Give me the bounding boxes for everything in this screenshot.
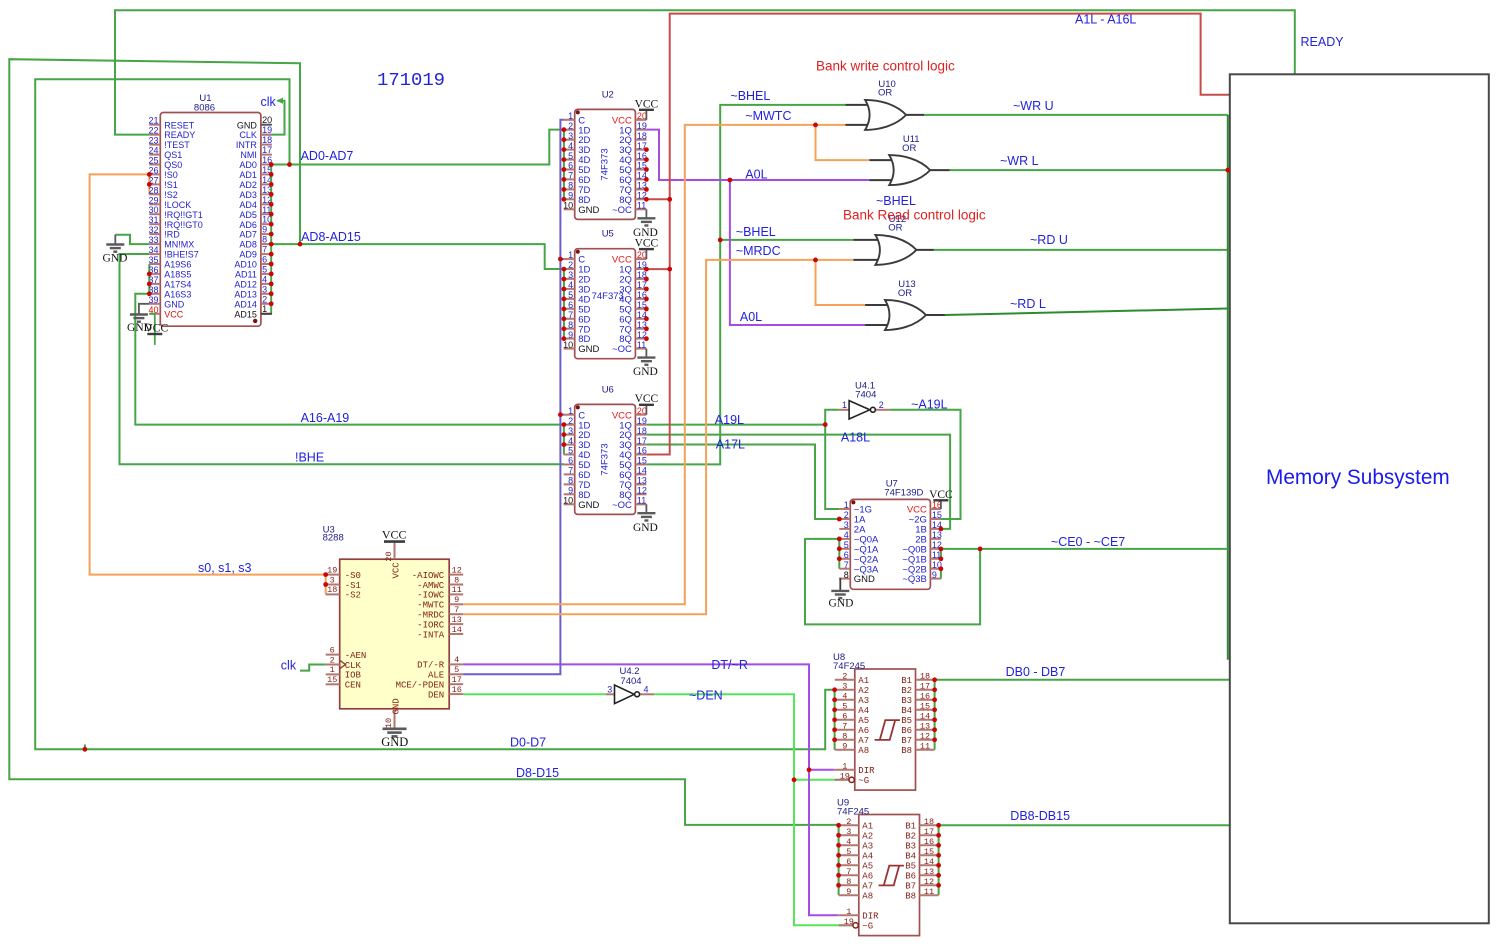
svg-text:~A19L: ~A19L: [911, 397, 948, 411]
svg-text:4: 4: [844, 530, 849, 540]
wire D0-D7 stub above junction: [84, 745, 86, 750]
svg-text:13: 13: [452, 615, 462, 625]
svg-text:5: 5: [262, 264, 267, 274]
wire ~RD U: [934, 249, 1228, 251]
wire A19L net: [646, 424, 825, 426]
svg-text:7: 7: [568, 171, 573, 181]
svg-text:B5: B5: [905, 862, 916, 872]
svg-text:A8: A8: [862, 892, 873, 902]
svg-text:s0, s1, s3: s0, s1, s3: [198, 561, 252, 575]
svg-text:B2: B2: [901, 686, 912, 696]
svg-text:9: 9: [932, 570, 937, 580]
svg-text:A2: A2: [858, 686, 869, 696]
transceiver U8 74F245: [835, 669, 935, 790]
svg-text:19: 19: [327, 565, 337, 575]
or-gate U11: [889, 155, 930, 185]
U7 ground: [839, 579, 840, 591]
svg-text:!S2: !S2: [164, 190, 178, 200]
svg-text:11: 11: [924, 887, 934, 897]
svg-text:A16-A19: A16-A19: [301, 411, 350, 425]
svg-text:17: 17: [924, 827, 934, 837]
svg-text:11: 11: [920, 741, 930, 751]
svg-text:29: 29: [148, 195, 158, 205]
svg-text:Bank Read control logic: Bank Read control logic: [843, 208, 986, 223]
svg-text:2: 2: [330, 655, 335, 665]
svg-text:2: 2: [568, 260, 573, 270]
svg-text:GND: GND: [578, 344, 599, 355]
svg-text:A1: A1: [858, 676, 869, 686]
wire A1L-A16L net: [646, 198, 669, 200]
svg-text:DIR: DIR: [858, 766, 875, 776]
svg-text:10: 10: [563, 201, 573, 211]
svg-text:6: 6: [568, 300, 573, 310]
svg-text:13: 13: [924, 867, 934, 877]
svg-text:AD0-AD7: AD0-AD7: [301, 149, 354, 163]
svg-text:3: 3: [607, 685, 612, 695]
svg-text:~RD U: ~RD U: [1030, 233, 1068, 247]
svg-text:5: 5: [842, 701, 847, 711]
svg-text:2: 2: [568, 416, 573, 426]
svg-text:9: 9: [842, 741, 847, 751]
svg-text:24: 24: [148, 146, 158, 156]
svg-text:GND: GND: [237, 120, 258, 130]
svg-text:15: 15: [920, 701, 930, 711]
svg-text:4: 4: [568, 436, 573, 446]
svg-text:17: 17: [452, 675, 462, 685]
inverter U4.1 7404: [839, 400, 890, 419]
svg-text:A3: A3: [862, 842, 873, 852]
svg-text:INTR: INTR: [236, 140, 257, 150]
svg-text:6: 6: [568, 161, 573, 171]
svg-text:!RQ!!GT0: !RQ!!GT0: [164, 220, 203, 230]
svg-text:18: 18: [637, 131, 647, 141]
svg-text:B7: B7: [905, 882, 916, 892]
wire U3 S bracket: [325, 575, 327, 595]
wire A0L net: [646, 130, 869, 180]
svg-text:A4: A4: [862, 852, 873, 862]
svg-text:!RD: !RD: [164, 230, 180, 240]
svg-text:7: 7: [454, 605, 459, 615]
svg-text:AD0: AD0: [239, 160, 257, 170]
svg-text:4: 4: [842, 691, 847, 701]
svg-text:B3: B3: [905, 842, 916, 852]
svg-text:5: 5: [846, 847, 851, 857]
svg-text:U5: U5: [602, 229, 614, 240]
svg-text:3: 3: [568, 131, 573, 141]
svg-text:MN!MX: MN!MX: [164, 240, 194, 250]
svg-text:~RD L: ~RD L: [1010, 297, 1046, 311]
svg-text:4: 4: [262, 274, 267, 284]
svg-text:13: 13: [932, 530, 942, 540]
svg-text:A5: A5: [862, 862, 873, 872]
svg-text:!TEST: !TEST: [164, 140, 190, 150]
svg-text:20: 20: [384, 551, 394, 561]
svg-text:GND: GND: [381, 735, 408, 749]
svg-text:8: 8: [842, 731, 847, 741]
decoder U7 74F139D: [829, 489, 954, 610]
svg-text:AD6: AD6: [239, 220, 257, 230]
svg-text:-MRDC: -MRDC: [417, 611, 445, 621]
svg-text:1: 1: [844, 500, 849, 510]
wire ~A19L net: [889, 410, 960, 519]
svg-text:33: 33: [148, 235, 158, 245]
svg-text:12: 12: [920, 731, 930, 741]
svg-text:GND: GND: [633, 522, 658, 534]
svg-text:AD3: AD3: [239, 190, 257, 200]
svg-text:B1: B1: [901, 676, 912, 686]
wire ~BHEL net: [646, 105, 845, 465]
wire U5 input bracket: [563, 269, 565, 339]
svg-text:~BHEL: ~BHEL: [730, 89, 770, 103]
svg-text:A8: A8: [858, 746, 869, 756]
svg-text:74F245: 74F245: [833, 661, 865, 672]
svg-text:~BHEL: ~BHEL: [736, 225, 776, 239]
memory subsystem box: [1230, 74, 1489, 923]
svg-text:clk: clk: [281, 659, 297, 673]
ground at MN!MX: [114, 235, 116, 245]
svg-text:DIR: DIR: [862, 912, 879, 922]
svg-text:AD15: AD15: [234, 309, 257, 319]
svg-text:11: 11: [637, 496, 646, 506]
svg-text:34: 34: [148, 245, 158, 255]
svg-text:AD8-AD15: AD8-AD15: [301, 230, 361, 244]
svg-text:31: 31: [148, 215, 158, 225]
svg-text:5: 5: [454, 665, 459, 675]
svg-text:AD11: AD11: [235, 270, 257, 280]
bus controller U3 8288: [326, 528, 464, 749]
svg-text:AD9: AD9: [239, 250, 257, 260]
svg-text:A2: A2: [862, 832, 873, 842]
svg-text:7: 7: [262, 245, 267, 255]
svg-text:GND: GND: [103, 253, 128, 265]
svg-text:16: 16: [924, 837, 934, 847]
wire U7 Q2B-Q3B tie: [940, 569, 942, 579]
wire D0-D7 net (left loop): [35, 79, 834, 749]
latch U6 74F373: [563, 393, 658, 534]
transceiver U9 74F245: [839, 815, 939, 936]
wire U6 input bracket: [563, 425, 565, 455]
svg-text:READY: READY: [1301, 35, 1345, 49]
svg-text:~G: ~G: [862, 922, 873, 932]
svg-text:7: 7: [568, 310, 573, 320]
or-gate U13: [885, 300, 926, 330]
svg-text:6: 6: [842, 711, 847, 721]
wire ~DEN net: [654, 694, 852, 925]
svg-text:74F373: 74F373: [592, 291, 624, 302]
svg-text:VCC: VCC: [635, 98, 659, 110]
ground at U1 pin39: [139, 304, 149, 315]
or-gate U12: [875, 235, 916, 265]
wire U7 Q0B-Q1B tie: [940, 549, 942, 559]
svg-text:2: 2: [568, 121, 573, 131]
svg-text:6: 6: [568, 456, 573, 466]
svg-text:-S1: -S1: [345, 581, 361, 591]
svg-text:7404: 7404: [620, 676, 641, 687]
svg-text:9: 9: [454, 595, 459, 605]
svg-text:3: 3: [844, 520, 849, 530]
svg-text:16: 16: [637, 446, 647, 456]
svg-text:6: 6: [262, 255, 267, 265]
svg-text:7: 7: [568, 466, 573, 476]
wire clk to U1 CLK: [262, 101, 285, 135]
svg-text:2: 2: [262, 294, 267, 304]
svg-text:19: 19: [262, 125, 272, 135]
svg-text:!RQ!!GT1: !RQ!!GT1: [164, 210, 203, 220]
svg-text:AD1: AD1: [239, 170, 257, 180]
svg-text:VCC: VCC: [635, 393, 659, 405]
svg-text:1: 1: [262, 304, 267, 314]
svg-text:4: 4: [454, 655, 459, 665]
transceiver glyph: [879, 866, 904, 886]
wire READY net: [115, 10, 1295, 134]
svg-text:GND: GND: [633, 366, 658, 378]
svg-text:A19S6: A19S6: [164, 260, 191, 270]
svg-text:QS0: QS0: [164, 160, 182, 170]
wire A18L net: [646, 435, 950, 529]
svg-text:~OC: ~OC: [612, 205, 632, 216]
svg-text:B7: B7: [901, 736, 912, 746]
ground: [645, 209, 647, 218]
svg-text:32: 32: [148, 225, 158, 235]
svg-text:10: 10: [563, 340, 573, 350]
wire MN!MX to GND: [115, 235, 149, 244]
wire DT/~R net: [463, 664, 838, 915]
wire U7 QA bracket: [838, 539, 840, 569]
svg-text:!LOCK: !LOCK: [164, 200, 191, 210]
svg-text:B8: B8: [901, 746, 912, 756]
svg-text:AD7: AD7: [239, 230, 257, 240]
svg-text:18: 18: [637, 426, 647, 436]
wire D8-D15 net (left loop): [9, 59, 838, 825]
svg-text:OR: OR: [878, 88, 892, 99]
svg-text:17: 17: [637, 436, 647, 446]
svg-text:MCE/-PDEN: MCE/-PDEN: [396, 681, 445, 691]
svg-text:8: 8: [454, 575, 459, 585]
svg-text:8: 8: [846, 877, 851, 887]
svg-text:8086: 8086: [194, 103, 215, 114]
svg-text:B8: B8: [905, 892, 916, 902]
svg-text:B4: B4: [905, 852, 916, 862]
svg-text:14: 14: [920, 711, 930, 721]
svg-text:RESET: RESET: [164, 120, 195, 130]
svg-text:OR: OR: [902, 143, 916, 154]
svg-text:GND: GND: [164, 299, 185, 309]
svg-text:21: 21: [148, 116, 158, 126]
svg-text:7: 7: [842, 721, 847, 731]
svg-text:4: 4: [644, 685, 649, 695]
svg-text:23: 23: [148, 136, 158, 146]
wire A17L net: [646, 445, 839, 520]
VCC symbol: [645, 249, 647, 259]
wire memory box edge vertical: [1227, 115, 1229, 660]
svg-text:IOB: IOB: [345, 671, 362, 681]
svg-text:9: 9: [568, 486, 573, 496]
svg-text:B6: B6: [901, 726, 912, 736]
svg-text:AD10: AD10: [234, 260, 257, 270]
svg-text:~BHEL: ~BHEL: [876, 194, 916, 208]
latch U2 74F373: [563, 98, 658, 239]
svg-text:-AEN: -AEN: [345, 651, 367, 661]
svg-text:READY: READY: [164, 130, 195, 140]
wire DB0-DB7: [935, 679, 1231, 681]
svg-text:14: 14: [452, 625, 462, 635]
svg-text:74F373: 74F373: [600, 148, 611, 180]
svg-text:~WR L: ~WR L: [1000, 154, 1039, 168]
svg-text:16: 16: [920, 691, 930, 701]
svg-text:AD2: AD2: [239, 180, 257, 190]
svg-text:1: 1: [842, 400, 847, 410]
or-gate U13 input stubs: [865, 304, 892, 306]
svg-text:VCC: VCC: [144, 323, 168, 335]
svg-text:~Q3B: ~Q3B: [902, 574, 927, 585]
svg-text:9: 9: [262, 225, 267, 235]
svg-text:B4: B4: [901, 706, 912, 716]
svg-text:1: 1: [568, 111, 573, 121]
svg-text:!BHE!S7: !BHE!S7: [164, 250, 199, 260]
svg-text:DT/~R: DT/~R: [711, 658, 747, 672]
vcc at U1 pin40: [149, 314, 155, 345]
svg-text:11: 11: [637, 340, 646, 350]
svg-text:A17L: A17L: [716, 438, 745, 452]
svg-text:-IORC: -IORC: [417, 620, 445, 630]
svg-text:5: 5: [568, 151, 573, 161]
svg-text:2: 2: [879, 400, 884, 410]
svg-text:8: 8: [568, 476, 573, 486]
svg-text:OR: OR: [898, 288, 912, 299]
svg-text:7: 7: [846, 867, 851, 877]
svg-text:13: 13: [637, 476, 647, 486]
svg-text:AD8: AD8: [239, 240, 257, 250]
svg-text:2: 2: [844, 510, 849, 520]
svg-text:ALE: ALE: [428, 671, 444, 681]
svg-text:VCC: VCC: [929, 489, 953, 501]
svg-text:9: 9: [568, 191, 573, 201]
svg-text:4: 4: [568, 280, 573, 290]
svg-text:3: 3: [846, 827, 851, 837]
svg-text:16: 16: [452, 685, 462, 695]
svg-text:AD12: AD12: [234, 280, 257, 290]
U7 VCC: [940, 500, 942, 509]
svg-text:AD4: AD4: [239, 200, 257, 210]
wire U2 input bracket: [563, 130, 565, 200]
svg-text:A6: A6: [862, 872, 873, 882]
svg-text:17: 17: [262, 145, 272, 155]
svg-text:GND: GND: [578, 500, 599, 511]
svg-text:CLK: CLK: [345, 661, 362, 671]
svg-text:25: 25: [148, 156, 158, 166]
svg-text:9: 9: [846, 887, 851, 897]
svg-text:6: 6: [330, 645, 335, 655]
svg-text:QS1: QS1: [164, 150, 182, 160]
svg-text:4: 4: [846, 837, 851, 847]
U1 AD15 pin1 mark: [253, 319, 257, 323]
svg-text:clk: clk: [261, 95, 277, 109]
svg-text:2: 2: [842, 671, 847, 681]
svg-text:-S0: -S0: [345, 571, 361, 581]
svg-text:8: 8: [844, 570, 849, 580]
svg-text:A7: A7: [862, 882, 873, 892]
wire A16-A19 net: [135, 264, 564, 425]
svg-text:!S0: !S0: [164, 170, 178, 180]
svg-text:20: 20: [637, 406, 647, 416]
svg-text:19: 19: [844, 917, 854, 927]
svg-text:28: 28: [148, 185, 158, 195]
wire U8 A bracket: [834, 690, 836, 750]
svg-text:Memory Subsystem: Memory Subsystem: [1266, 466, 1450, 489]
wire ~MWTC net: [463, 125, 845, 604]
svg-text:-S2: -S2: [345, 591, 361, 601]
svg-text:GND: GND: [854, 574, 875, 585]
svg-text:18: 18: [924, 817, 934, 827]
wire U8 B bracket: [934, 680, 936, 750]
svg-text:D8-D15: D8-D15: [516, 766, 559, 780]
svg-text:1: 1: [330, 665, 335, 675]
svg-text:39: 39: [148, 295, 158, 305]
svg-text:GND: GND: [392, 698, 402, 714]
svg-text:NMI: NMI: [240, 150, 257, 160]
svg-text:D0-D7: D0-D7: [510, 736, 546, 750]
svg-text:11: 11: [637, 201, 646, 211]
svg-text:3: 3: [568, 270, 573, 280]
svg-text:3: 3: [568, 426, 573, 436]
svg-text:7404: 7404: [855, 389, 876, 400]
svg-text:CEN: CEN: [345, 681, 361, 691]
latch U5 74F373: [563, 238, 658, 379]
svg-text:B6: B6: [905, 872, 916, 882]
svg-text:8: 8: [262, 235, 267, 245]
svg-text:!BHE: !BHE: [295, 451, 324, 465]
svg-text:6: 6: [846, 857, 851, 867]
svg-text:12: 12: [452, 565, 462, 575]
svg-text:19: 19: [840, 771, 850, 781]
wire U7 output loop: [805, 539, 980, 625]
svg-text:15: 15: [327, 675, 337, 685]
svg-text:DT/-R: DT/-R: [417, 661, 445, 671]
svg-text:1: 1: [842, 761, 847, 771]
svg-text:-AIOWC: -AIOWC: [412, 571, 445, 581]
svg-text:15: 15: [637, 456, 647, 466]
svg-text:8288: 8288: [323, 533, 344, 544]
wire U1 AD pin tie vertical: [270, 165, 272, 314]
svg-text:A1: A1: [862, 822, 873, 832]
ground: [645, 504, 647, 513]
wire DB8-DB15: [939, 824, 1231, 826]
svg-text:A1L - A16L: A1L - A16L: [1075, 13, 1136, 27]
wire AD15 black stub: [261, 313, 272, 315]
svg-text:35: 35: [148, 255, 158, 265]
svg-text:9: 9: [568, 330, 573, 340]
svg-text:A5: A5: [858, 716, 869, 726]
svg-text:20: 20: [637, 111, 647, 121]
svg-text:8: 8: [568, 181, 573, 191]
svg-text:U2: U2: [602, 89, 614, 100]
wire ~MRDC net: [463, 260, 853, 614]
wire ~CE0-~CE7: [941, 548, 1228, 550]
svg-text:-AMWC: -AMWC: [417, 581, 445, 591]
svg-text:8: 8: [568, 320, 573, 330]
or-gate U12 input stubs: [853, 239, 883, 241]
svg-text:18: 18: [262, 135, 272, 145]
svg-text:B5: B5: [901, 716, 912, 726]
svg-text:19: 19: [637, 121, 647, 131]
svg-text:-INTA: -INTA: [417, 630, 445, 640]
svg-text:10: 10: [563, 496, 573, 506]
svg-text:VCC: VCC: [392, 562, 402, 579]
svg-text:OR: OR: [888, 223, 902, 234]
U3 GND pin10: [394, 709, 396, 729]
svg-text:~MRDC: ~MRDC: [736, 244, 781, 258]
svg-text:A18L: A18L: [841, 430, 870, 444]
